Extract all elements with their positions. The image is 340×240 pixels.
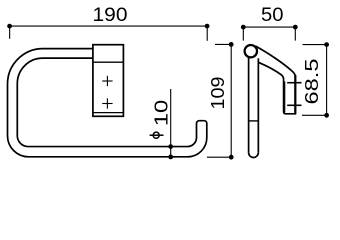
svg-text:109: 109 <box>208 77 228 110</box>
svg-text:10: 10 <box>151 100 171 127</box>
svg-text:50: 50 <box>261 4 284 26</box>
svg-text:68.5: 68.5 <box>302 59 322 105</box>
svg-text:190: 190 <box>93 4 128 26</box>
